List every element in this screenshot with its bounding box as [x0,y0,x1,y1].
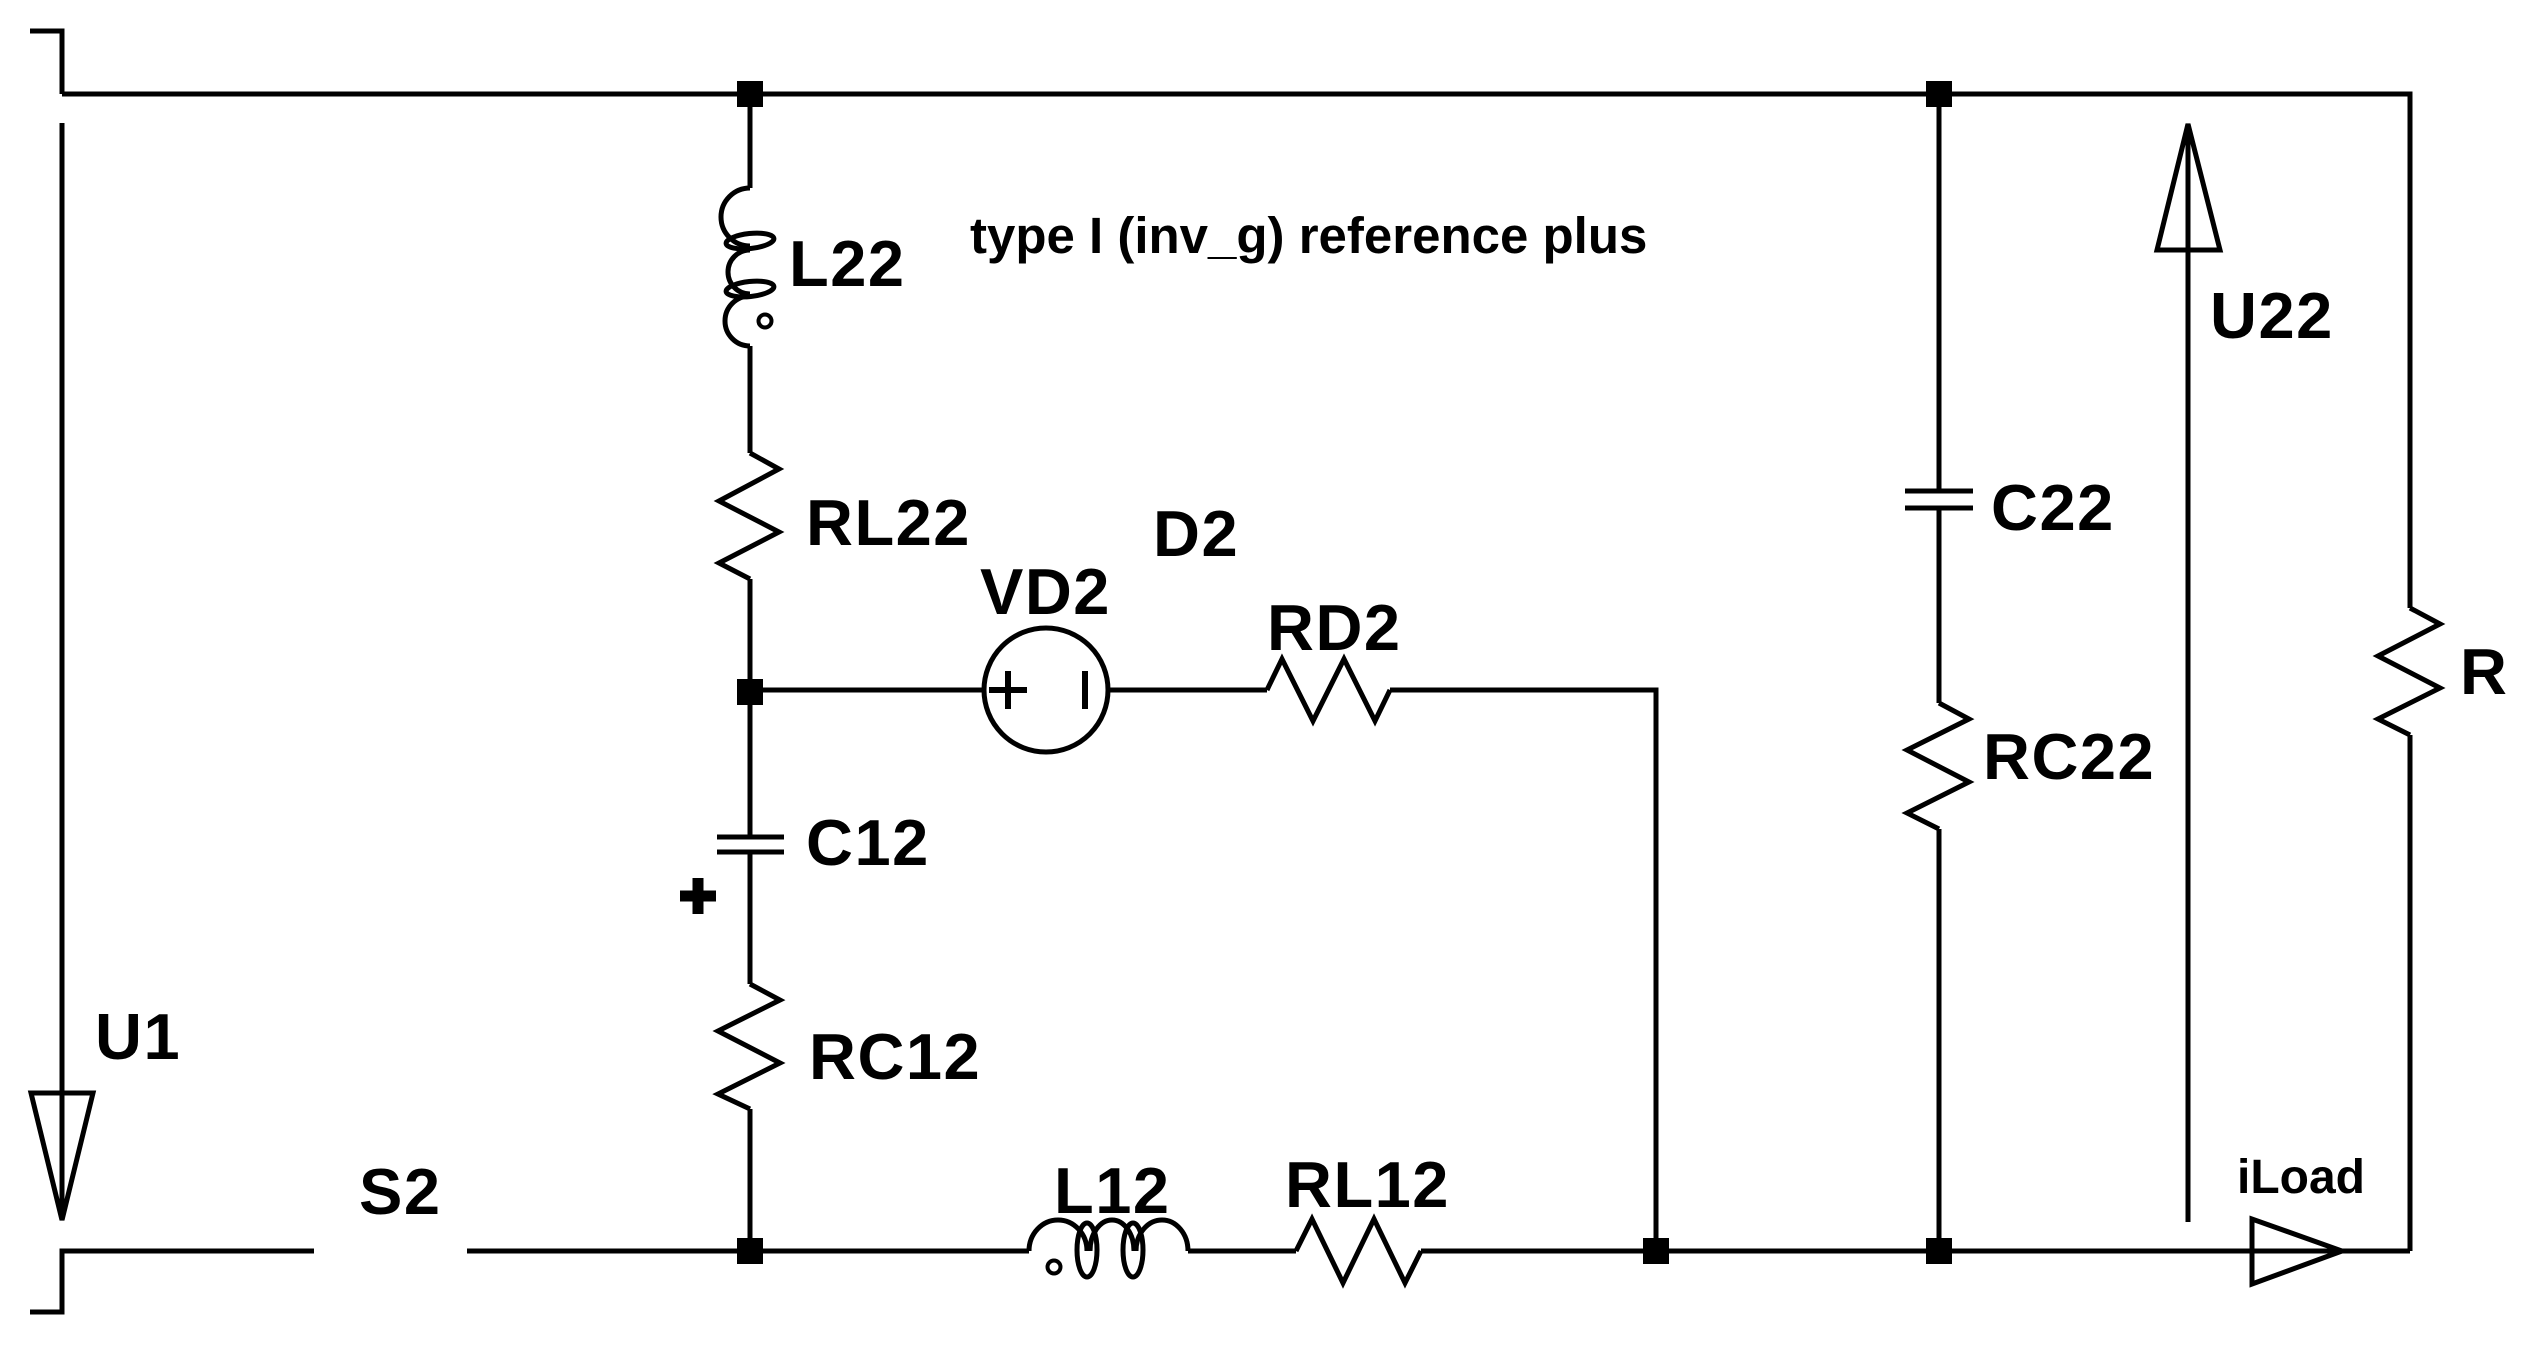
svg-text:L22: L22 [789,227,906,300]
svg-text:C12: C12 [806,806,930,879]
svg-text:RC22: RC22 [1983,720,2155,793]
svg-text:RL12: RL12 [1285,1148,1450,1221]
svg-text:iLoad: iLoad [2237,1151,2365,1204]
svg-text:U1: U1 [95,1000,181,1073]
svg-text:C22: C22 [1991,471,2115,544]
svg-text:VD2: VD2 [980,555,1111,628]
svg-text:R: R [2460,635,2508,708]
svg-text:RD2: RD2 [1267,591,1402,664]
svg-text:RL22: RL22 [806,486,971,559]
svg-text:RC12: RC12 [809,1020,981,1093]
svg-text:U22: U22 [2210,279,2334,352]
svg-text:L12: L12 [1054,1154,1171,1227]
svg-text:S2: S2 [359,1155,442,1228]
svg-text:D2: D2 [1153,497,1239,570]
svg-text:type I (inv_g) reference plus: type I (inv_g) reference plus [970,207,1647,264]
